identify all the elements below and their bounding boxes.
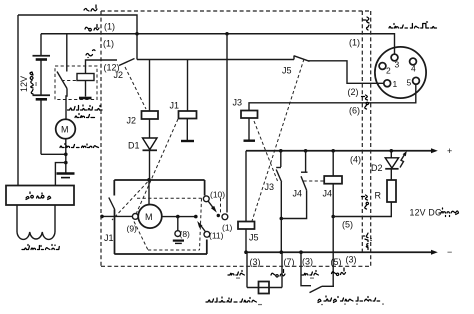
- contact J2 arm: [119, 59, 135, 66]
- svg-text:(1): (1): [222, 223, 233, 233]
- wire (5): (333.2,216.5)-(391,216.5)-R bottom: [333, 202, 391, 217]
- svg-text:(8): (8): [180, 229, 191, 239]
- svg-text:12V DC: 12V DC: [410, 208, 442, 218]
- svg-text:4: 4: [411, 64, 416, 74]
- svg-text:(1): (1): [104, 22, 115, 32]
- svg-text:2: 2: [386, 66, 391, 76]
- label قرمز rotated in channel (upper): [362, 95, 369, 109]
- dashed link J2 contact to J2 coil: [125, 67, 146, 109]
- contact J3: drop, tick, arm: [276, 151, 281, 219]
- svg-text:−: −: [447, 247, 452, 257]
- inner box right edge segments: [205, 180, 207, 254]
- shutdown electromagnet coil rect: [259, 282, 270, 294]
- dashed link J5 contact to J5 coil: [252, 59, 304, 221]
- label رگولاتور: [26, 192, 51, 200]
- node dot (333.2,150): [331, 149, 335, 153]
- field coil loops: [17, 232, 55, 239]
- label مشکی (right): [302, 271, 318, 279]
- svg-text:(6): (6): [349, 106, 360, 116]
- svg-text:J4: J4: [293, 189, 303, 199]
- wire J5 coil to minus bus: [245, 229, 247, 252]
- node dot (195.8,216.6): [194, 215, 198, 219]
- terminal circle (11): [204, 231, 210, 237]
- arrow from (10) to contact: [208, 201, 217, 212]
- svg-text:(11): (11): [209, 231, 224, 241]
- terminal circle (10): [203, 196, 209, 202]
- relay coil J4: [324, 176, 342, 184]
- generator legs: [17, 205, 55, 232]
- svg-text:J5: J5: [282, 66, 292, 76]
- battery 12V: two cells: [33, 56, 51, 155]
- svg-text:(3): (3): [250, 257, 261, 267]
- node dot (177.8,216.6): [176, 215, 180, 219]
- wire left vertical: (18,15)-(18,185): [17, 15, 19, 186]
- dashed link (10) to contact dot: [220, 198, 222, 214]
- key terminal 4: [410, 58, 417, 73]
- svg-text:(2): (2): [348, 87, 359, 97]
- motor M (contact driver): [138, 205, 162, 229]
- oil pressure switch: drop and arm: [301, 252, 334, 292]
- relay coil J1: [179, 111, 197, 119]
- svg-text:(7): (7): [284, 257, 295, 267]
- inner box top edge: [114, 179, 204, 181]
- dashed box left edge: [100, 11, 102, 266]
- J1 core: line+bar: [181, 119, 194, 142]
- node dot (246,252.2): [244, 250, 248, 254]
- label خروجی: [439, 208, 459, 217]
- key terminal 5: [407, 77, 420, 87]
- svg-text:J4: J4: [323, 189, 333, 199]
- label باطری (rotated): [30, 72, 36, 94]
- dashed channel inner line: [361, 11, 363, 252]
- wire left stub with terminal (9): [102, 215, 132, 217]
- key switch circle: [375, 47, 426, 98]
- inner box left edge upper + J1 contact: [109, 180, 115, 254]
- node dot at (137,33.75): [135, 32, 139, 36]
- wire red bus: (41,33.75)-(398,33.75)-(398,54) to key terminal 3: [41, 34, 395, 54]
- svg-text:D1: D1: [128, 141, 140, 151]
- svg-text:J5: J5: [249, 233, 259, 243]
- svg-text:1: 1: [393, 79, 398, 89]
- svg-text:J3: J3: [265, 182, 275, 192]
- label قرمز rotated in channel (lower): [362, 195, 369, 209]
- svg-text:M: M: [61, 125, 69, 135]
- wire (6): J3 coil top to key terminal 5: [249, 85, 416, 111]
- wire x227 vertical from red bus down to contact (1): [226, 34, 228, 213]
- motor M starter: [56, 119, 76, 139]
- wire battery to ground node: (41,154.3)-(65.8,154.3): [41, 153, 66, 155]
- node dot (281.3,252.2): [280, 250, 284, 254]
- wire D1 to inner box top: [149, 150, 151, 180]
- relay coil J2: [142, 111, 159, 119]
- LED D2: feed from plus bus: [390, 151, 392, 158]
- wire motor bottom to ground node: [65, 139, 67, 173]
- wire y60: J2 fixed to J5 contact: [137, 59, 294, 61]
- svg-text:J1: J1: [104, 233, 114, 243]
- svg-text:+: +: [447, 146, 452, 156]
- dashed sub-box right: [200, 198, 202, 250]
- terminal circle (8): [175, 231, 181, 237]
- node dot (102,216.4): [100, 215, 104, 219]
- svg-text:M: M: [145, 212, 153, 222]
- key terminal 3: [391, 54, 399, 69]
- wire node to regulator: (65.8,162.6)-(55.4,162.6)-(55.4,185): [55, 163, 65, 186]
- node dot (280.8,150): [279, 149, 283, 153]
- label قرمز (red): [85, 25, 99, 32]
- LED D2 triangle + bar: [385, 158, 398, 169]
- wire J4 coil line x333: [332, 151, 334, 286]
- label الکترومگنت استارت (2 lines): [68, 105, 103, 110]
- diode D1: [143, 138, 158, 150]
- contact J4: drop, tick, arm: [301, 151, 308, 191]
- node dot (281.3,218.5): [280, 217, 284, 221]
- label قرمز: [271, 270, 285, 278]
- shutdown electromagnet drops: [247, 252, 282, 287]
- inner box bottom edge: [114, 253, 207, 255]
- relay coil J5: [238, 222, 255, 230]
- svg-text:J2: J2: [114, 70, 124, 80]
- resistor R: [387, 180, 396, 202]
- terminal circle (1) motor contact: [222, 214, 228, 220]
- svg-text:J3: J3: [233, 98, 243, 108]
- node dot (65.8,162.6): [64, 161, 68, 165]
- svg-text:(3): (3): [302, 257, 313, 267]
- dashed sub-box bottom: [148, 249, 200, 251]
- wire J1-coil drop (187.5,59.5)-(187.5,111): [187, 60, 189, 112]
- key terminal 2: [379, 63, 391, 76]
- wire feed M from D1 node: [148, 180, 150, 205]
- wire battery drop (41,33.75)-(41,55): [40, 34, 42, 55]
- wire (8) drop: [177, 217, 179, 231]
- dashed link J4 contact to J4 coil: [304, 180, 325, 182]
- svg-text:5: 5: [407, 78, 412, 88]
- label فلایویل ژنراتور: [22, 245, 59, 250]
- svg-text:(1): (1): [349, 38, 360, 48]
- dashed link J1 coil to (9): [137, 119, 179, 213]
- regulator box: [6, 186, 74, 206]
- svg-text:(9): (9): [127, 224, 138, 234]
- label زرد (yellow): [84, 5, 97, 11]
- wire arm to motor (67,88.5)-(66,119.5): [66, 89, 67, 120]
- svg-text:12V: 12V: [19, 76, 29, 92]
- coil electromagnet start: rect: [77, 74, 94, 81]
- relay coil J3: [241, 111, 258, 119]
- node dot at (227,33.75): [225, 32, 229, 36]
- svg-text:J2: J2: [127, 116, 137, 126]
- dashed box right edge: [370, 11, 372, 266]
- J3 core: line+bar: [244, 118, 256, 141]
- wire switch drop (66.8,33.75)-(66.8,71.5): [66, 34, 68, 72]
- svg-text:J1: J1: [170, 101, 180, 111]
- svg-text:(5): (5): [342, 220, 353, 230]
- dashed link J3 coil to J3 contact: [254, 121, 278, 181]
- terminal circle (9): [132, 214, 138, 220]
- node dot (333.2,216.5): [331, 215, 335, 219]
- wire M right to contact node: [162, 216, 196, 218]
- ground bars under (8): [173, 241, 184, 244]
- wire J2 to D1: [149, 119, 151, 138]
- dashed box top edge: [101, 10, 371, 12]
- node dot (305.6,150): [304, 149, 308, 153]
- dashed mech link to coil: [62, 80, 77, 82]
- node dot (148.7,179.8): [147, 178, 151, 182]
- wire J3 node to minus bus: [280, 219, 282, 253]
- node dot (301,252.2): [299, 250, 303, 254]
- contact point dot (218.3,215.5): [217, 214, 220, 217]
- svg-text:(3): (3): [346, 255, 357, 265]
- label مشکی (left): [228, 271, 244, 279]
- arrow from (11) to node: [197, 221, 205, 232]
- svg-text:(10): (10): [210, 190, 225, 200]
- switch arm in electromagnet box: [57, 72, 67, 89]
- label زرد rotated in channel: [363, 17, 369, 30]
- svg-text:D2: D2: [371, 163, 383, 173]
- label الکترومگنت خاموشی: [206, 297, 261, 305]
- dashed sub-box left diagonal: [134, 222, 148, 251]
- label آبی (blue): [86, 50, 95, 58]
- svg-text:(1): (1): [103, 39, 114, 49]
- label حفاظت فشار کم روغن: [318, 296, 383, 305]
- contact J5: riser and arm: [294, 56, 310, 62]
- svg-text:(4): (4): [350, 155, 361, 165]
- svg-text:(5): (5): [331, 257, 342, 267]
- label کلید استارت: [389, 22, 436, 28]
- dashed short link to J1 contact: [112, 182, 148, 220]
- minus bus y252.2 with arrow: [246, 247, 452, 257]
- svg-text:3: 3: [395, 60, 400, 70]
- wire D2 to R: [390, 169, 392, 180]
- coil core: line+bar: [79, 81, 92, 99]
- svg-text:R: R: [375, 191, 382, 201]
- dashed box bottom edge: [101, 265, 371, 267]
- dashed box electromagnet start: [55, 66, 97, 100]
- wire (2): J5 out to key terminal 1: [309, 61, 384, 84]
- LED arrows: [400, 151, 407, 168]
- wire node to J4 contact bottom: [281, 190, 306, 218]
- plus bus y150 with arrow: [246, 146, 452, 156]
- wire yellow top: (18,15)-(137,15)-(137,59.5): [18, 15, 137, 60]
- wire J5 coil feed: (246,150)-(246,221.5): [245, 151, 247, 222]
- label قرمز (far right): [332, 268, 346, 276]
- label مشکی rotated in channel: [364, 233, 372, 249]
- key terminal 1: [384, 79, 398, 89]
- dashed sub-box top: [137, 197, 202, 199]
- wire J2-coil drop (149,59.5)-(149,111): [149, 60, 151, 112]
- ground bars under motor: [57, 174, 75, 178]
- wire blue: coil top (85.5,73.5) up and right to J2 contact: [86, 60, 118, 74]
- node dot (65.8,154.3): [64, 153, 68, 157]
- node dot (391.3,150.8): [390, 149, 394, 153]
- label استارت موتور: [60, 144, 99, 148]
